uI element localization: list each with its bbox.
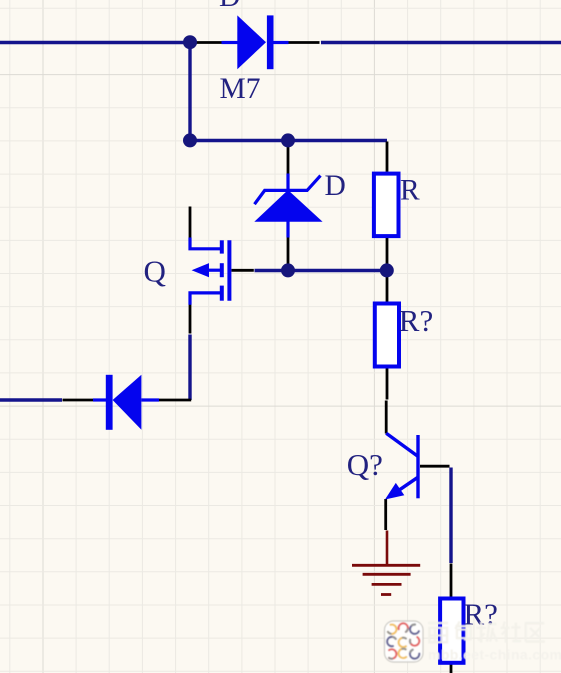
svg-text:M7: M7 [220,73,261,105]
svg-text:Q: Q [144,253,166,288]
svg-text:R?: R? [399,303,433,338]
svg-text:R: R [400,175,420,207]
svg-text:Q?: Q? [347,447,383,482]
svg-text:mbb.eet-china.com: mbb.eet-china.com [428,646,561,662]
svg-text:D: D [219,0,240,13]
svg-text:D: D [325,170,346,202]
